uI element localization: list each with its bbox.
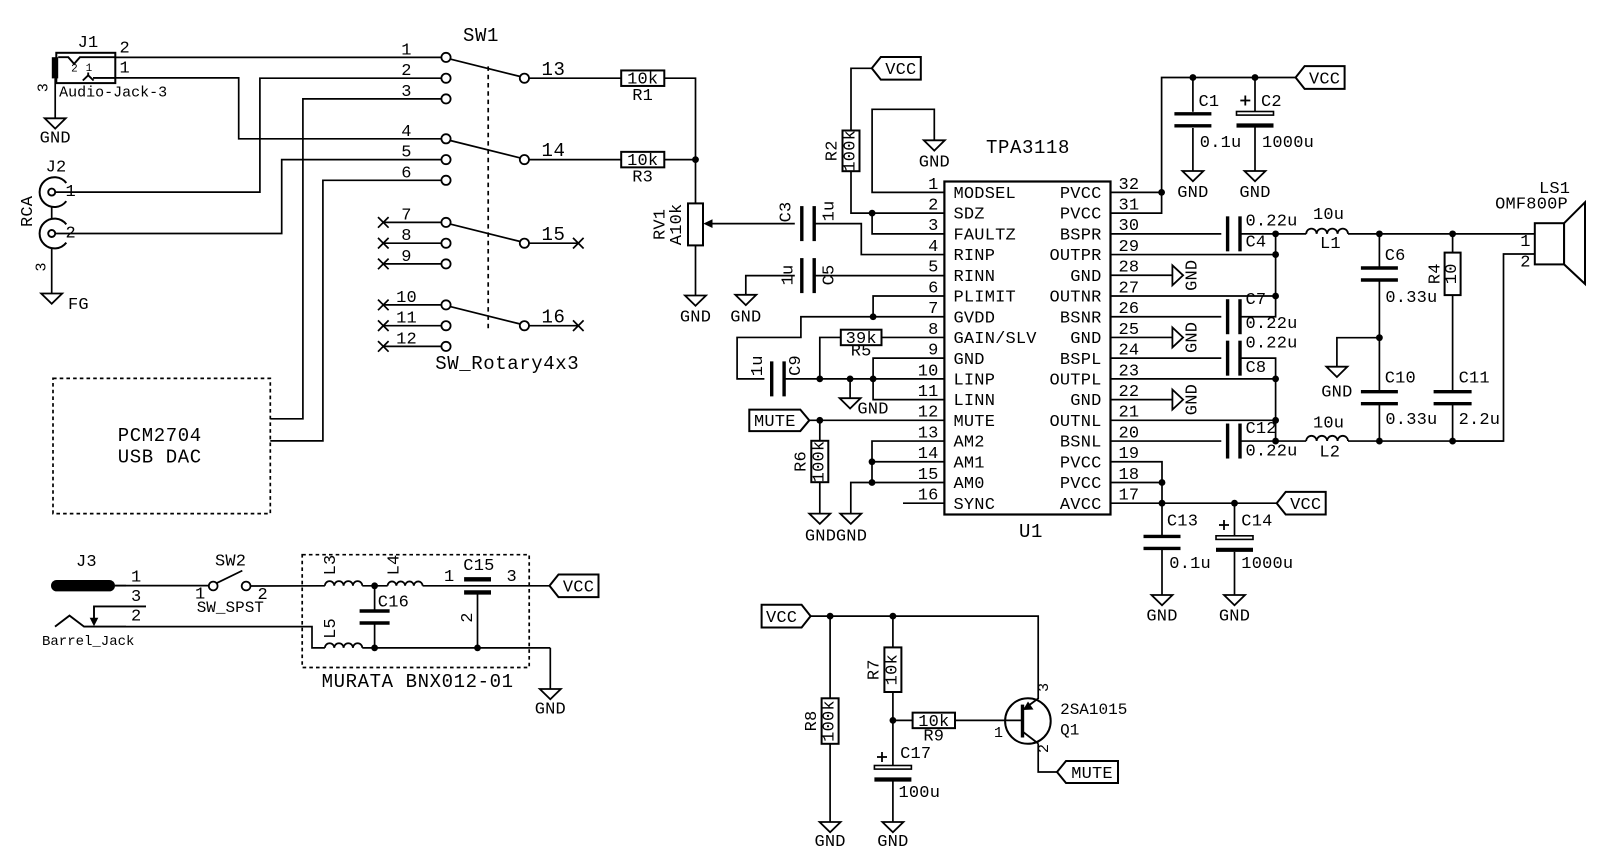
svg-text:GND: GND	[535, 701, 566, 720]
svg-text:OMF800P: OMF800P	[1495, 196, 1568, 215]
svg-text:0.33u: 0.33u	[1385, 411, 1437, 430]
SW1 input contact 11	[441, 321, 450, 330]
svg-text:MUTE: MUTE	[954, 413, 996, 432]
svg-text:LINP: LINP	[954, 371, 996, 390]
svg-text:C7: C7	[1246, 291, 1267, 310]
J1 ring contact (pin 1)	[83, 75, 94, 80]
wire node to ground	[849, 379, 851, 398]
SW1 unused input wire 9	[383, 263, 441, 265]
resistor R8 100k	[822, 698, 839, 744]
svg-text:PCM2704: PCM2704	[118, 425, 202, 447]
svg-text:1: 1	[120, 60, 130, 79]
junction pin 17	[1159, 500, 1166, 507]
svg-text:RINN: RINN	[954, 268, 996, 287]
svg-text:Barrel_Jack: Barrel_Jack	[42, 634, 134, 650]
capacitor C7 0.22u	[1226, 299, 1229, 334]
svg-text:AM2: AM2	[954, 434, 985, 453]
wire C9 to LINP	[784, 378, 944, 380]
svg-text:GND: GND	[1184, 260, 1203, 291]
wire L4 to C15	[423, 585, 550, 587]
svg-text:2: 2	[120, 40, 130, 59]
svg-text:10u: 10u	[1313, 206, 1344, 225]
svg-text:C6: C6	[1385, 247, 1406, 266]
ground arrow at pin 28	[1111, 274, 1173, 276]
wire R6 to ground	[819, 482, 821, 513]
wire C5 to RINN	[814, 275, 944, 277]
svg-text:1: 1	[131, 569, 141, 588]
SW1 common contact 15	[520, 239, 529, 248]
wire BSNR to C7	[1111, 316, 1222, 318]
J3 pin 1 stub	[115, 585, 126, 587]
wire speaker return	[1453, 254, 1535, 441]
wire to R7	[892, 616, 894, 647]
svg-text:C16: C16	[378, 593, 409, 612]
SW1 input contact 6	[441, 176, 450, 185]
capacitor C10 0.33u	[1378, 338, 1380, 392]
svg-text:1: 1	[1520, 233, 1530, 252]
SW1 input contact 5	[441, 155, 450, 164]
svg-text:VCC: VCC	[1290, 496, 1321, 515]
no-connect X pin 7	[378, 217, 389, 228]
svg-text:GND: GND	[730, 308, 761, 327]
junction R4 top	[1449, 230, 1456, 237]
svg-text:LINN: LINN	[954, 392, 996, 411]
J1 tip contact (pin 2)	[58, 57, 115, 64]
svg-text:A10k: A10k	[668, 204, 687, 246]
svg-text:SW1: SW1	[463, 25, 499, 47]
wire RV1 wiper to C3	[712, 223, 795, 225]
SW1 unused input wire 8	[383, 242, 441, 244]
svg-text:GND: GND	[1321, 383, 1352, 402]
svg-text:1u: 1u	[780, 265, 799, 286]
svg-text:GND: GND	[1219, 608, 1250, 627]
speaker LS1 OMF800P	[1535, 223, 1564, 264]
svg-text:R5: R5	[851, 342, 872, 361]
junction C14 top	[1231, 500, 1238, 507]
svg-text:J2: J2	[46, 159, 67, 178]
svg-text:3: 3	[1036, 683, 1053, 692]
svg-text:C8: C8	[1246, 359, 1267, 378]
svg-text:PVCC: PVCC	[1060, 475, 1102, 494]
junction AM1	[869, 458, 876, 465]
resistor R3 10k	[621, 152, 664, 168]
svg-text:OUTNL: OUTNL	[1049, 413, 1101, 432]
J3 sleeve contact	[55, 616, 126, 627]
junction C16 ground rail	[371, 645, 378, 652]
op-amp U1 TPA3118 body	[944, 182, 1110, 515]
junction ground branch	[847, 375, 854, 382]
wire R3 to volume node	[664, 159, 695, 161]
ground at R6	[809, 514, 830, 524]
SW1 input contact 10	[441, 300, 450, 309]
wire J1 pin3 to ground	[54, 78, 56, 118]
svg-text:C13: C13	[1167, 512, 1198, 531]
svg-text:GAIN/SLV: GAIN/SLV	[954, 330, 1038, 349]
svg-text:SW_SPST: SW_SPST	[197, 599, 264, 617]
svg-text:2.2u: 2.2u	[1459, 411, 1501, 430]
svg-text:C14: C14	[1241, 512, 1272, 531]
svg-text:GND: GND	[1177, 184, 1208, 203]
inductor L5	[325, 643, 362, 648]
svg-text:USB DAC: USB DAC	[118, 446, 202, 468]
svg-text:2: 2	[131, 608, 141, 627]
resistor R1 10k	[621, 70, 664, 86]
svg-text:100u: 100u	[899, 784, 941, 803]
capacitor C8 0.22u	[1226, 341, 1229, 376]
svg-text:GND: GND	[1070, 330, 1101, 349]
filter bottom rail	[362, 647, 550, 649]
frame ground FG at J2	[41, 294, 62, 304]
svg-text:SW_Rotary4x3: SW_Rotary4x3	[435, 353, 579, 375]
wire MUTE to pin 12	[809, 419, 944, 421]
svg-text:FG: FG	[68, 296, 89, 315]
junction OUTPL	[1272, 375, 1279, 382]
wire AVCC rail	[1111, 502, 1277, 504]
capacitor C9 1u	[770, 361, 773, 396]
no-connect X pin 8	[378, 238, 389, 249]
svg-text:2: 2	[71, 64, 78, 76]
block PCM2704 USB DAC (dashed)	[53, 378, 270, 513]
no-connect X pin 12	[378, 341, 389, 352]
svg-text:GND: GND	[954, 351, 985, 370]
wire R9 to Q1 base	[955, 719, 1023, 721]
capacitor C5 1u	[800, 258, 803, 293]
wire PCM2704 out2 to SW1 input 6	[270, 180, 441, 441]
svg-text:2: 2	[1520, 254, 1530, 273]
svg-text:SYNC: SYNC	[954, 496, 996, 515]
svg-text:C10: C10	[1385, 369, 1416, 388]
inductor L2 10u	[1306, 436, 1348, 441]
svg-text:0.33u: 0.33u	[1385, 289, 1437, 308]
SW1 unused input wire 12	[383, 345, 441, 347]
signal flag MUTE output	[1057, 761, 1118, 783]
wire LINN tie	[873, 379, 944, 400]
capacitor C1 0.1u	[1192, 78, 1194, 112]
svg-text:MUTE: MUTE	[754, 413, 796, 432]
SW1 input contact 1	[441, 53, 450, 62]
connector J3 Barrel_Jack	[51, 580, 115, 591]
svg-text:MUTE: MUTE	[1071, 765, 1113, 784]
wire R1 to volume node	[664, 78, 695, 203]
capacitor C13 0.1u	[1161, 503, 1163, 536]
SW1 input contact 4	[441, 134, 450, 143]
wire L3 to L4	[362, 585, 387, 587]
wire AM0 stub	[872, 481, 944, 483]
svg-text:1000u: 1000u	[1241, 555, 1293, 574]
svg-text:GND: GND	[40, 129, 71, 148]
wire C4 to output node	[1240, 233, 1276, 235]
svg-text:AVCC: AVCC	[1060, 496, 1102, 515]
ground at R8	[820, 822, 841, 832]
wire BSPR to C4	[1111, 233, 1222, 235]
svg-text:VCC: VCC	[766, 609, 797, 628]
wire R8 to ground	[829, 744, 831, 822]
J3 switch pin 3 lead	[94, 606, 146, 618]
svg-text:R3: R3	[632, 168, 653, 187]
svg-text:GND: GND	[1184, 384, 1203, 415]
connector J2 RCA jack B	[40, 219, 67, 249]
svg-text:L4: L4	[385, 555, 404, 576]
junction base node	[890, 717, 897, 724]
power flag VCC at R2	[872, 57, 921, 80]
wire VCC to R2	[851, 68, 872, 130]
wire Q1 collector to MUTE	[1038, 744, 1057, 773]
svg-text:RINP: RINP	[954, 247, 996, 266]
resistor R2 100k	[843, 131, 860, 172]
wire SW1 output 13 to R1	[529, 77, 621, 79]
ground at RV1	[685, 296, 706, 306]
SW1 input contact 8	[441, 239, 450, 248]
svg-text:L2: L2	[1319, 443, 1340, 462]
svg-text:1: 1	[994, 725, 1003, 742]
capacitor C2 1000u polarized	[1254, 78, 1256, 112]
svg-text:GND: GND	[857, 401, 888, 420]
feedthrough capacitor C15	[464, 577, 491, 581]
wire C7 to node column A	[1240, 234, 1276, 317]
junction R1-R3	[692, 156, 699, 163]
svg-text:J1: J1	[78, 34, 99, 53]
junction OUTNR	[1272, 293, 1279, 300]
SW1 unused input wire 11	[383, 325, 441, 327]
svg-text:GND: GND	[805, 527, 836, 546]
J2 pin 3 stem	[51, 248, 53, 294]
svg-text:PVCC: PVCC	[1060, 206, 1102, 225]
svg-text:MURATA BNX012-01: MURATA BNX012-01	[322, 671, 514, 693]
inductor L4	[388, 581, 423, 585]
svg-text:VCC: VCC	[885, 61, 916, 80]
capacitor C4 0.22u	[1226, 216, 1229, 251]
ground at C13	[1152, 595, 1173, 605]
potentiometer RV1 A10k	[688, 203, 703, 245]
capacitor C14 1000u polarized	[1234, 503, 1236, 536]
svg-text:R1: R1	[632, 87, 653, 106]
ground arrow at pin 25	[1111, 336, 1173, 338]
svg-text:C3: C3	[778, 202, 797, 223]
connector J1 Audio-Jack-3	[56, 53, 115, 83]
svg-text:SW2: SW2	[215, 552, 246, 571]
svg-text:AM1: AM1	[954, 454, 985, 473]
svg-text:R9: R9	[923, 728, 944, 747]
svg-text:C4: C4	[1246, 233, 1267, 252]
wire OUTPL to node	[1111, 378, 1276, 380]
wire J1 pin2 to SW1 input 1	[115, 56, 441, 58]
SW1 input contact 7	[441, 218, 450, 227]
svg-text:0.22u: 0.22u	[1246, 212, 1298, 231]
ground at J1	[45, 118, 66, 128]
svg-text:1: 1	[444, 568, 454, 587]
wire J3 pin2 to filter bottom rail	[126, 627, 325, 648]
junction LINN branch	[870, 375, 877, 382]
svg-text:VCC: VCC	[563, 579, 594, 598]
wire rail to ground	[549, 648, 551, 689]
svg-text:BSNR: BSNR	[1060, 309, 1102, 328]
svg-text:AM0: AM0	[954, 475, 985, 494]
ground at AM pins	[840, 514, 861, 524]
svg-text:0.1u: 0.1u	[1200, 134, 1242, 153]
junction output A at L1	[1272, 230, 1279, 237]
svg-text:100k: 100k	[842, 130, 861, 172]
resistor R6 100k	[811, 441, 828, 482]
svg-text:L1: L1	[1320, 235, 1341, 254]
resistor R7 10k	[884, 647, 901, 692]
SW1 unused input wire 7	[383, 221, 441, 223]
transistor Q1 2SA1015	[1005, 698, 1051, 744]
power flag VCC at mute driver	[762, 605, 811, 628]
junction L3-L4-C16	[371, 582, 378, 589]
svg-text:GND: GND	[1146, 608, 1177, 627]
wire GVDD net	[737, 317, 944, 379]
junction C2 top	[1252, 74, 1259, 81]
wire to R6	[819, 420, 821, 440]
svg-text:C2: C2	[1261, 93, 1282, 112]
svg-text:R7: R7	[866, 659, 885, 680]
wire PCM2704 out1 to SW1 input 3	[270, 99, 441, 419]
SW1 lever pole 4-14	[450, 141, 520, 158]
no-connect X pin 9	[378, 259, 389, 270]
junction R5 branch	[816, 375, 823, 382]
svg-text:MODSEL: MODSEL	[954, 185, 1016, 204]
svg-text:BSPL: BSPL	[1060, 351, 1102, 370]
SW1 input contact 12	[441, 342, 450, 351]
svg-text:SDZ: SDZ	[954, 206, 985, 225]
SW1 common contact 16	[520, 321, 529, 330]
svg-text:RCA: RCA	[19, 195, 38, 227]
ground at LINP node	[840, 398, 861, 408]
no-connect X output 15	[573, 238, 584, 249]
svg-text:C15: C15	[463, 557, 494, 576]
junction R8 top	[827, 613, 834, 620]
svg-text:2SA1015: 2SA1015	[1060, 701, 1127, 719]
svg-text:R2: R2	[824, 140, 843, 161]
SW1 input contact 9	[441, 259, 450, 268]
ground at C14	[1224, 595, 1245, 605]
svg-text:OUTPL: OUTPL	[1049, 371, 1101, 390]
svg-text:1000u: 1000u	[1262, 134, 1314, 153]
junction output B at L2	[1272, 438, 1279, 445]
wire J2 pin1 to SW1 input 2	[55, 78, 441, 192]
junction filter midpoint	[1376, 334, 1383, 341]
capacitor C11 2.2u	[1434, 390, 1472, 393]
wire to R8	[829, 616, 831, 698]
wire R7 to base node	[892, 692, 894, 720]
svg-text:R6: R6	[793, 451, 812, 472]
no-connect X output 16	[573, 320, 584, 331]
svg-text:3: 3	[34, 262, 51, 271]
junction pin 18	[1159, 479, 1166, 486]
junction MUTE-R6	[816, 417, 823, 424]
SW1 lever pole 7-15	[450, 224, 520, 241]
wire AM1 stub	[872, 461, 944, 463]
svg-text:GND: GND	[1239, 184, 1270, 203]
SW1 lever pole 10-16	[450, 307, 520, 324]
svg-text:L3: L3	[322, 555, 341, 576]
svg-text:100k: 100k	[821, 700, 840, 742]
svg-text:U1: U1	[1019, 521, 1043, 543]
junction PLIMIT-GVDD	[870, 313, 877, 320]
wire R5 to GAIN/SLV	[882, 336, 945, 338]
junction C15 ground rail	[474, 645, 481, 652]
ground at filter midpoint	[1326, 367, 1347, 377]
switch SW2 SW_SPST	[209, 582, 218, 591]
no-connect X pin 10	[378, 300, 389, 311]
ground at C2	[1245, 171, 1266, 181]
svg-text:C9: C9	[787, 355, 806, 376]
inductor L1 10u	[1306, 229, 1348, 234]
svg-text:1u: 1u	[821, 201, 840, 222]
ground at MODSEL	[924, 140, 945, 150]
C15 pin 2 lead	[477, 592, 479, 648]
svg-text:J3: J3	[76, 553, 97, 572]
svg-text:GND: GND	[814, 833, 845, 852]
no-connect X pin 11	[378, 320, 389, 331]
capacitor C6 0.33u	[1378, 234, 1380, 268]
capacitor C16	[374, 586, 376, 611]
J3 switch arrow	[90, 618, 99, 626]
capacitor C3 1u	[800, 206, 803, 241]
svg-text:L5: L5	[322, 618, 341, 639]
svg-text:PVCC: PVCC	[1060, 454, 1102, 473]
svg-text:PLIMIT: PLIMIT	[954, 289, 1016, 308]
svg-text:R8: R8	[803, 711, 822, 732]
capacitor C17 100u polarized	[892, 720, 894, 765]
wire BSNL to C12	[1111, 440, 1222, 442]
wire J2 pin2 to SW1 input 5	[55, 160, 441, 234]
svg-text:0.22u: 0.22u	[1246, 443, 1298, 462]
wire GND pin 9 tie	[873, 358, 944, 379]
svg-text:0.1u: 0.1u	[1169, 555, 1211, 574]
wire C8 to node column B	[1240, 358, 1276, 441]
svg-text:OUTPR: OUTPR	[1049, 247, 1101, 266]
junction SDZ-FAULTZ-R2	[869, 210, 876, 217]
power flag VCC top right	[1296, 66, 1345, 89]
svg-text:GND: GND	[836, 527, 867, 546]
ground at filter	[540, 689, 561, 699]
J2 body link	[51, 207, 53, 219]
svg-text:10u: 10u	[1313, 415, 1344, 434]
wire VCC rail to Q1 emitter	[811, 616, 1039, 699]
svg-text:GND: GND	[1184, 322, 1203, 353]
wire OUTNR to node	[1111, 295, 1276, 297]
svg-text:GVDD: GVDD	[954, 309, 996, 328]
wire PVCC18 tie	[1111, 481, 1163, 483]
svg-text:2: 2	[459, 612, 478, 622]
svg-text:C12: C12	[1246, 420, 1277, 439]
SW1 common contact 14	[520, 155, 529, 164]
svg-text:GND: GND	[1070, 392, 1101, 411]
wire R4 to C11	[1452, 295, 1454, 392]
SW1 lever pole 1-13	[450, 59, 520, 76]
power flag VCC at AVCC	[1277, 492, 1326, 515]
ground at C5	[735, 295, 756, 305]
wire SW2 to filter L3	[251, 585, 325, 587]
wire RV1 to ground	[695, 245, 697, 295]
RV1 wiper arrow	[703, 219, 712, 228]
junction OUTNL	[1272, 417, 1279, 424]
svg-text:GND: GND	[1070, 268, 1101, 287]
junction C6 top	[1376, 230, 1383, 237]
svg-text:10: 10	[1443, 263, 1462, 284]
wire AM pins tie	[851, 441, 945, 514]
wire MODSEL loop	[872, 109, 944, 192]
svg-text:0.22u: 0.22u	[1246, 315, 1298, 334]
wire L2 rail to speaker return	[1348, 440, 1504, 442]
wire SW1 output 14 to R3	[529, 159, 621, 161]
wire C12 to output node B	[1240, 440, 1276, 442]
svg-text:1u: 1u	[749, 355, 768, 376]
wire PVCC pins to VCC rail	[1111, 192, 1162, 213]
svg-text:C11: C11	[1459, 369, 1490, 388]
SW1 output 16 stub	[529, 325, 578, 327]
